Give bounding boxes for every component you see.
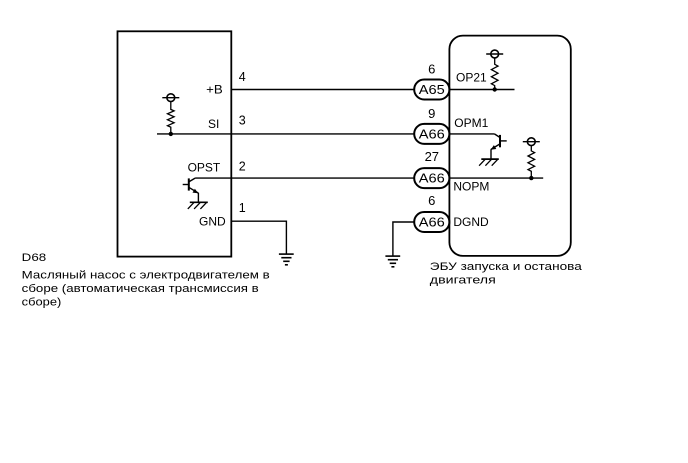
earth ground for DGND wire [385, 256, 400, 267]
svg-text:27: 27 [425, 149, 439, 164]
junction dot on NOPM wire [529, 176, 533, 180]
junction dot on SI wire [169, 132, 173, 136]
earth ground for GND wire [279, 254, 294, 265]
wire OP21 inside ECU [449, 89, 514, 91]
wire NOPM inside ECU [449, 177, 543, 179]
svg-text:A65: A65 [419, 82, 445, 97]
wire GND pin1 to ground [231, 221, 286, 254]
connector A66 pin 27 [414, 168, 449, 188]
svg-text:A66: A66 [419, 127, 445, 142]
svg-text:A66: A66 [419, 215, 445, 230]
wire OPM1 inside ECU [449, 133, 494, 135]
svg-text:1: 1 [239, 201, 246, 215]
svg-text:9: 9 [428, 106, 435, 121]
power symbol NOPM pull-up [523, 138, 540, 146]
chassis ground of Q1 [188, 202, 208, 209]
connector A66 pin 9 [414, 124, 449, 144]
power symbol OP21 pull-up [486, 50, 503, 58]
svg-text:ЭБУ запуска и останова: ЭБУ запуска и останова [430, 261, 583, 273]
svg-text:GND: GND [199, 214, 226, 228]
connector A65 pin 6 [414, 80, 449, 100]
wire DGND to ground [393, 222, 414, 256]
left block D68 (oil pump with motor) [118, 31, 232, 256]
resistor OP21 pull-up [491, 58, 498, 90]
resistor SI pull-up [168, 102, 175, 134]
svg-text:2: 2 [239, 159, 246, 173]
svg-text:двигателя: двигателя [430, 275, 496, 287]
chassis ground of Q2 [479, 159, 499, 166]
svg-text:6: 6 [428, 193, 435, 208]
junction dot on OP21 wire [493, 87, 497, 91]
svg-text:3: 3 [239, 114, 246, 128]
svg-text:4: 4 [239, 70, 246, 84]
svg-text:OPM1: OPM1 [454, 116, 488, 130]
svg-text:OPST: OPST [188, 160, 221, 174]
svg-text:Масляный насос с электродвигат: Масляный насос с электродвигателем в [22, 270, 270, 282]
svg-text:SI: SI [208, 117, 219, 131]
wire OPST pin2 to A66 [195, 177, 414, 179]
svg-text:+B: +B [206, 82, 223, 96]
transistor Q2 (OPM1 driver in ECU) [491, 134, 507, 159]
wire SI pin3 to A66 [157, 133, 414, 135]
svg-text:NOPM: NOPM [453, 180, 489, 194]
resistor NOPM pull-up [528, 146, 535, 179]
connector A66 pin 6 (DGND) [414, 212, 449, 232]
transistor Q1 (OPST driver in pump) [183, 178, 199, 202]
svg-text:6: 6 [428, 62, 435, 77]
power symbol at SI pull-up [162, 94, 179, 102]
svg-text:сборе): сборе) [22, 297, 62, 309]
svg-text:A66: A66 [419, 171, 445, 186]
svg-text:DGND: DGND [453, 215, 489, 229]
wire +B pin4 to A65 [231, 89, 414, 91]
svg-text:сборе (автоматическая трансмис: сборе (автоматическая трансмиссия в [22, 283, 259, 295]
svg-text:D68: D68 [22, 252, 47, 264]
svg-text:OP21: OP21 [456, 70, 487, 84]
ECU block (engine start/stop ECU) [449, 36, 570, 256]
